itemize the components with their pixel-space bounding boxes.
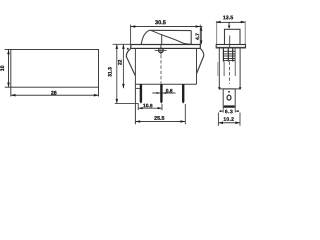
left view: dimension line 10 (vertical) [8,50,10,87]
right view: rib grid vertical 2 [227,48,229,61]
svg-text:10.2: 10.2 [223,117,234,123]
left view: arrow left of dim 28 [11,94,16,97]
svg-text:25.5: 25.5 [154,116,164,122]
right view: arrow pointing right of 6.3 [220,110,223,112]
right view: dimension line 13.5 [216,21,246,23]
right view: bezel bottom thick line [216,47,245,49]
middle view: arrow right of dim 10.8 [158,107,162,109]
right view: extension left for 6.3 [222,107,224,112]
svg-text:6.3: 6.3 [225,109,233,115]
middle view: arrow right of dim 25.5 [181,120,186,123]
middle view: left snap leaf [127,48,129,50]
right view: small pointer arrow at rocker top [228,26,231,29]
middle view: body bottom [135,83,196,85]
right view: clip tip left [218,87,221,90]
middle view: dashed center line [160,55,162,84]
right view: right extension line [244,21,246,44]
right view: rib lines [223,51,235,60]
right view: arrow left of dim 10.2 [219,122,224,125]
svg-text:13.5: 13.5 [223,15,233,21]
right view: body right side [239,48,241,89]
middle view: pin 2 [160,84,162,103]
svg-text:10.8: 10.8 [143,103,153,109]
left view: extension below right edge [98,87,100,96]
middle view: arrow left of dim 30.5 [131,25,136,28]
right view: leader 6.3 left [219,110,223,112]
middle view: center mark circle [159,48,164,53]
middle view: rocker right wall [190,31,192,45]
right view: inner wall left below ribs [223,62,225,77]
right view: center line below ribs [228,62,230,84]
right view: inner wall right below ribs [234,62,236,77]
right view: terminal hole ring [227,95,231,100]
middle view: right extension line of 30.5 [199,25,201,45]
left view: switch body outline rectangle [11,50,99,88]
right view: terminal bottom band [224,105,235,107]
right view: extension right for 10.2 [239,113,241,126]
right view: extension left for 10.2 [217,113,219,126]
middle view: extension tick at 22 bottom [136,87,141,89]
svg-text:30.5: 30.5 [155,20,166,26]
middle view: arrow bottom of dim 4.7 [200,41,202,45]
right view: arrow right of dim 13.5 [241,21,246,24]
right view: rib grid vertical 3 [232,48,234,61]
middle view: center mark cross horizontal [155,49,167,51]
middle view: dimension line 25.5 [136,121,186,123]
middle view: top extension line for 31.3 and 22 [113,43,131,45]
middle view: arrow right of dim 30.5 [196,25,201,28]
right view: rocker end right wall [239,29,241,44]
right view: rocker end top line [224,28,241,30]
middle view: rocker left flank [141,30,149,44]
right view: bezel rectangle [216,45,245,48]
left view: bottom edge extension line [5,86,11,88]
right view: left extension line [216,21,218,44]
right view: arrow right of dim 10.2 [235,122,240,125]
left view: dimension line 28 (horizontal) [11,94,98,96]
middle view: dimension line 30.5 [131,26,203,28]
right view: faint outer wall left [217,62,219,76]
middle view: leader line 0.8 [152,92,175,94]
middle view: pin 1 [140,84,142,103]
middle view: body left side (extends down as 25.5 extension) [134,48,136,124]
middle view: extension line at pin tips for 31.3 [115,102,139,104]
right view: terminal outline [223,89,235,107]
middle view: extension right for 25.5 (below pin3) [184,104,186,124]
svg-text:28: 28 [51,91,57,97]
svg-text:4.7: 4.7 [195,33,201,40]
middle view: center mark cross vertical [160,45,162,55]
middle view: arrow bottom of dim 31.3 [116,99,119,104]
svg-text:22: 22 [117,59,123,65]
middle view: dimension line 22 (vertical) [122,45,124,89]
right view: arrow pointing left of 6.3 [235,110,238,112]
middle view: arrow bottom of dim 22 [122,84,125,89]
middle view: rocker face curve [151,31,191,45]
middle view: dimension line 4.7 (vertical right) [200,27,202,45]
middle view: rocker divider line [161,35,163,45]
right view: pointer stem [228,22,231,26]
right view: leader 6.3 right [235,110,239,112]
right view: rib block right wall [234,48,236,61]
middle view: arrow top of dim 22 [122,44,125,49]
middle view: pin2 extension tick [161,104,163,110]
right view: extension right for 6.3 [234,107,236,112]
middle view: arrow left of dim 25.5 [136,120,141,123]
middle view: arrow top of dim 4.7 [200,27,202,31]
left view: arrow right of dim 28 [94,94,99,97]
middle view: pin 3 [182,84,184,103]
right view: rib grid vertical 1 [222,48,224,61]
left view: arrow up of dim 10 [7,50,10,55]
middle view: dimension line 10.8 [138,107,161,109]
middle view: arrow top of dim 31.3 [116,44,119,49]
right view: body bottom line [219,88,240,90]
svg-text:10: 10 [0,65,6,71]
left view: top edge extension line [5,49,11,51]
middle view: pin1 extension tick [137,104,139,110]
right view: clip tip right [239,87,242,90]
left view: extension below left edge [10,87,12,96]
right view: rocker end left wall [224,29,226,44]
svg-text:31.3: 31.3 [108,67,114,77]
right view: terminal dot [228,91,230,93]
middle view: bezel flange rectangle [131,45,201,49]
right view: rocker center stub line [229,36,231,48]
middle view: arrow left of dim 10.8 [138,107,142,109]
svg-text:0.8: 0.8 [166,88,173,94]
middle view: left extension line of 30.5 [130,25,132,45]
middle view: right snap leaf [197,49,204,74]
right view: dimension line 10.2 [219,122,240,124]
middle view: dimension line 31.3 (vertical) [116,45,118,104]
right view: arrow left of dim 13.5 [216,21,221,24]
left view: arrow down of dim 10 [7,83,10,88]
middle view: body right side [196,48,198,84]
middle view: arrow of leader 0.8 [157,92,161,94]
right view: body left side [218,48,220,89]
middle view: rocker top line [150,29,192,31]
